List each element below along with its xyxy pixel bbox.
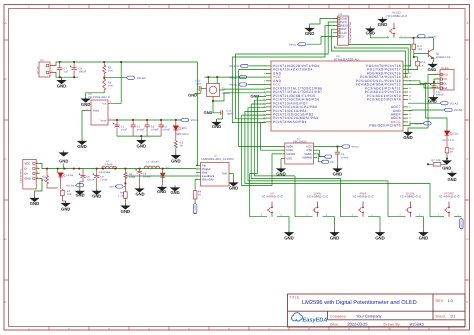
svg-text:11: 11 [427, 327, 430, 331]
svg-text:Vcont: Vcont [428, 35, 436, 38]
svg-text:4: 4 [197, 174, 198, 177]
svg-text:TC-F066D-C-C: TC-F066D-C-C [352, 195, 373, 199]
svg-text:5: 5 [197, 177, 198, 180]
svg-text:2 SCK: 2 SCK [339, 21, 347, 24]
svg-text:SDA: SDA [442, 86, 448, 90]
svg-text:Vmcu: Vmcu [229, 75, 237, 79]
svg-text:Your Company: Your Company [356, 314, 382, 319]
svg-text:GND: GND [93, 110, 99, 113]
svg-text:EasyEDA: EasyEDA [303, 318, 328, 324]
wire [280, 159, 282, 167]
svg-text:Sheet:: Sheet: [436, 315, 447, 319]
svg-text:6 5V: 6 5V [339, 35, 345, 38]
svg-text:Drawn By:: Drawn By: [384, 323, 401, 327]
resistor R13 [414, 57, 418, 60]
net flag An0 [115, 185, 123, 188]
svg-text:1N5258R: 1N5258R [99, 171, 111, 174]
net flag OFF D vertical [194, 200, 196, 203]
svg-text:GND: GND [284, 236, 294, 241]
wire [341, 216, 359, 218]
svg-text:100nF: 100nF [341, 156, 349, 159]
svg-text:LED2: LED2 [452, 132, 459, 135]
net flag Vmcu [342, 145, 350, 148]
wire [430, 216, 444, 218]
svg-text:GND: GND [375, 236, 385, 241]
svg-text:100nF: 100nF [162, 129, 170, 132]
svg-text:78L05M3-AB3-R: 78L05M3-AB3-R [88, 96, 110, 99]
capacitor C6 [79, 168, 83, 170]
svg-text:GND: GND [305, 31, 315, 36]
ground [93, 189, 101, 195]
wire [295, 216, 313, 218]
capacitor C9 [96, 169, 98, 176]
net flag VD A0 [444, 108, 452, 111]
ground [336, 154, 338, 167]
ground [330, 230, 338, 236]
svg-text:GND: GND [330, 236, 340, 241]
svg-text:GND: GND [250, 94, 259, 99]
LED2 SCL LED [426, 84, 448, 132]
wire UP column [249, 173, 251, 216]
wire STORE column [429, 183, 431, 216]
svg-text:GND: GND [171, 158, 181, 163]
svg-text:GND: GND [442, 73, 448, 77]
capacitor C7 [59, 62, 61, 68]
capacitor C3 [146, 120, 148, 125]
svg-text:A: A [466, 21, 468, 25]
wire PWR column [340, 178, 342, 216]
svg-text:LM2596 with Digital Potentiome: LM2596 with Digital Potentiometer and OL… [302, 299, 417, 306]
ground [285, 230, 293, 236]
wire programmer bus [236, 22, 335, 119]
wire VCC to flag [317, 146, 341, 148]
svg-text:ON/+OFF: ON/+OFF [202, 178, 214, 182]
svg-text:Vmcu: Vmcu [229, 83, 237, 87]
svg-text:TITLE:: TITLE: [290, 295, 301, 299]
svg-text:4 RST: 4 RST [339, 28, 347, 31]
wire VH [242, 154, 281, 186]
svg-text:GND: GND [229, 186, 239, 191]
svg-text:VD A0: VD A0 [454, 109, 463, 112]
svg-text:3: 3 [197, 170, 198, 173]
resistor R6 [103, 78, 106, 91]
svg-text:B1Sisko: B1Sisko [410, 322, 424, 327]
capacitor C11 [160, 120, 162, 125]
wire [250, 216, 268, 218]
node VD A2 wire [103, 77, 105, 79]
wire [82, 111, 86, 139]
svg-text:OFF D: OFF D [193, 206, 196, 214]
svg-text:GND: GND [135, 191, 144, 196]
wire [124, 169, 126, 172]
wire Vout rail [113, 119, 181, 121]
svg-text:3 MISO: 3 MISO [339, 25, 348, 28]
ground [78, 139, 86, 145]
wire [307, 36, 335, 44]
svg-text:150uH: 150uH [151, 160, 159, 163]
svg-text:PC0/ADC0/PCINT8: PC0/ADC0/PCINT8 [367, 98, 401, 102]
svg-text:E: E [4, 300, 6, 304]
svg-text:VCONT: VCONT [459, 221, 462, 231]
net flag Vmcu [181, 118, 189, 121]
svg-text:18pF: 18pF [196, 83, 203, 86]
resistor R12 [413, 38, 415, 43]
ground [162, 177, 164, 185]
transistor Q1 [413, 51, 415, 57]
capacitor C8 [73, 62, 75, 68]
svg-text:U5: U5 [40, 59, 44, 62]
svg-text:REV:: REV: [436, 299, 445, 303]
svg-text:E: E [466, 300, 468, 304]
ground [140, 136, 142, 138]
svg-text:GND: GND [428, 67, 437, 72]
ground [443, 159, 451, 165]
svg-text:5 3.3V: 5 3.3V [339, 32, 347, 35]
wire [195, 91, 201, 94]
wire [233, 174, 235, 181]
wire [213, 101, 221, 113]
wire [433, 38, 435, 50]
wire [86, 91, 105, 97]
svg-text:Date:: Date: [330, 323, 339, 327]
svg-text:1K: 1K [198, 194, 202, 197]
svg-text:U6: U6 [339, 13, 343, 16]
svg-text:D+: D+ [25, 172, 29, 176]
svg-text:Vmcu: Vmcu [289, 44, 297, 47]
svg-text:PWR MCU: PWR MCU [175, 133, 189, 136]
capacitor C12 [431, 86, 436, 88]
svg-text:PCINT4/MISO/PB4: PCINT4/MISO/PB4 [273, 120, 307, 124]
svg-text:XH-2A: XH-2A [37, 66, 40, 74]
svg-text:100K: 100K [129, 176, 136, 179]
svg-text:100uF: 100uF [78, 71, 86, 74]
svg-text:220uF: 220uF [87, 179, 95, 182]
svg-text:LM2596S-ADJ_C1X000: LM2596S-ADJ_C1X000 [202, 158, 235, 161]
svg-text:GND: GND [57, 83, 67, 88]
svg-text:OFF D: OFF D [229, 64, 238, 68]
svg-text:An0: An0 [109, 186, 114, 189]
svg-text:10K: 10K [67, 193, 72, 196]
svg-text:B: B [466, 77, 468, 81]
svg-text:UP: UP [319, 156, 323, 159]
net flag Vcont [423, 122, 431, 125]
wire [446, 154, 448, 158]
svg-text:16MHz: 16MHz [222, 92, 231, 95]
ground [82, 97, 90, 103]
svg-text:LED1: LED1 [180, 127, 187, 130]
wire [248, 76, 267, 78]
LED1 PWR MCU [175, 120, 177, 126]
resistor R5 [103, 62, 105, 64]
resistor R1 [46, 169, 48, 175]
svg-text:GND: GND [419, 236, 429, 241]
capacitor C8b [139, 169, 141, 172]
wire [388, 216, 406, 218]
svg-text:TC-F066D-C-C: TC-F066D-C-C [307, 195, 328, 199]
svg-text:GND: GND [121, 209, 131, 214]
svg-text:GND: GND [442, 165, 451, 170]
wire MCU right bus [335, 46, 409, 73]
svg-text:TC-F066D-C-C: TC-F066D-C-C [261, 195, 282, 199]
ground top [60, 151, 68, 157]
wire STORE net [241, 185, 243, 187]
net flag UP [317, 150, 324, 156]
connector U5 [39, 62, 50, 77]
svg-text:Company:: Company: [330, 315, 347, 319]
net flag VD A2 [440, 102, 448, 105]
wire bus MCU to buttons [250, 97, 266, 174]
ground [419, 230, 427, 236]
resistor R4 [124, 171, 127, 179]
svg-text:GND: GND [403, 135, 413, 140]
svg-text:10: 10 [387, 5, 391, 9]
svg-text:2022-03-25: 2022-03-25 [348, 322, 368, 327]
svg-text:D1: D1 [166, 166, 170, 169]
wire [408, 67, 418, 69]
svg-text:USB-MICRO: USB-MICRO [20, 169, 23, 183]
svg-text:VD A2: VD A2 [450, 102, 459, 105]
svg-text:TC-F066D-C-C: TC-F066D-C-C [386, 14, 407, 18]
svg-text:Programmer Port: Programmer Port [349, 22, 352, 43]
ground [404, 130, 412, 136]
capacitor C5 [336, 147, 338, 153]
wire [370, 37, 389, 39]
svg-text:100nF: 100nF [151, 129, 159, 132]
svg-text:GND: GND [447, 177, 456, 182]
svg-text:VH/RH: VH/RH [286, 152, 295, 156]
svg-text:TC-F066D-C-C: TC-F066D-C-C [438, 195, 459, 199]
resistor R9 [194, 180, 197, 190]
svg-text:2N3904-A2: 2N3904-A2 [436, 56, 451, 59]
svg-text:VD A2: VD A2 [137, 76, 146, 80]
svg-text:1 GND: 1 GND [339, 17, 347, 20]
wire [408, 123, 423, 125]
ground [277, 167, 285, 173]
wire [124, 180, 126, 191]
capacitor C14 [221, 110, 223, 115]
svg-text:GND: GND [170, 190, 179, 195]
ground [175, 149, 177, 153]
svg-text:GND: GND [81, 102, 91, 107]
ground [171, 186, 179, 192]
svg-text:D-: D- [25, 167, 28, 171]
svg-text:1.2K: 1.2K [118, 195, 124, 198]
title block [288, 294, 466, 327]
ground [61, 197, 63, 201]
resistor R3 [175, 130, 177, 140]
ground [433, 57, 435, 62]
svg-text:PB5/SCK/PCINT5: PB5/SCK/PCINT5 [369, 124, 401, 128]
ground [124, 200, 126, 204]
wire SCL [408, 81, 437, 84]
ground [229, 181, 237, 187]
wire [40, 164, 196, 169]
wire SDA [408, 85, 437, 89]
resistor R2 [60, 177, 62, 189]
svg-text:B: B [4, 77, 6, 81]
wire [125, 175, 196, 177]
svg-text:TC-F066D-C-C: TC-F066D-C-C [400, 195, 421, 199]
svg-text:11: 11 [427, 5, 430, 9]
svg-text:GND: GND [77, 144, 87, 149]
svg-text:Vin: Vin [102, 102, 107, 105]
svg-text:220uF: 220uF [100, 179, 108, 182]
ground [376, 230, 384, 236]
capacitor C1 [116, 120, 118, 125]
svg-text:1.0: 1.0 [448, 299, 453, 303]
wire [35, 179, 43, 197]
svg-text:100uF: 100uF [436, 94, 444, 97]
svg-text:GND: GND [188, 93, 197, 98]
wire [249, 65, 266, 67]
svg-text:GND: GND [61, 206, 70, 211]
svg-text:LED3: LED3 [67, 174, 74, 177]
svg-text:SCL: SCL [442, 82, 448, 86]
wire [201, 88, 207, 90]
wire [408, 102, 440, 104]
ground [30, 196, 38, 202]
wire [113, 62, 121, 103]
wire to X9C104 [239, 70, 281, 147]
ground [433, 88, 435, 95]
net flag DN [317, 154, 321, 162]
svg-text:Vmcu: Vmcu [352, 146, 360, 149]
net flag VCONT [460, 218, 464, 229]
svg-text:GND: GND [92, 194, 101, 199]
LED D3 power [57, 169, 59, 173]
diode D1 [162, 169, 164, 174]
svg-text:GND: GND [157, 189, 166, 194]
wire [408, 109, 444, 112]
svg-text:1K: 1K [180, 145, 184, 148]
svg-text:A: A [4, 21, 6, 25]
svg-text:GND: GND [30, 201, 40, 206]
svg-text:1/1: 1/1 [450, 315, 455, 319]
svg-text:100nF: 100nF [137, 129, 145, 132]
svg-text:DN: DN [330, 161, 334, 164]
ground [310, 18, 338, 26]
wire [248, 84, 267, 86]
net flag Vcont [417, 35, 425, 38]
connector USB J1 [23, 159, 36, 189]
ground [222, 115, 224, 119]
ground [135, 187, 143, 193]
svg-text:Vcont: Vcont [414, 123, 422, 126]
capacitor C13 [199, 86, 201, 91]
svg-text:10K: 10K [108, 85, 113, 88]
svg-text:10: 10 [387, 327, 391, 331]
svg-text:L1: L1 [147, 160, 151, 163]
svg-text:GND: GND [25, 177, 31, 181]
svg-text:VD A0: VD A0 [66, 185, 74, 188]
crystal X1 [207, 84, 220, 97]
wire [434, 79, 437, 86]
svg-text:GND: GND [204, 110, 213, 115]
svg-text:GND: GND [212, 124, 221, 129]
wire DISPL column [387, 181, 389, 217]
svg-text:VSS: VSS [286, 157, 292, 161]
ground [61, 77, 63, 78]
svg-text:1K0: 1K0 [417, 48, 422, 51]
net flag VD A2 [126, 76, 134, 79]
svg-text:1uF: 1uF [63, 71, 68, 74]
svg-text:X1: X1 [222, 87, 226, 90]
net flag VD A0 [76, 184, 84, 187]
ground [366, 27, 374, 33]
svg-text:VCC: VCC [25, 162, 31, 166]
capacitor C2 [132, 120, 134, 125]
resistor R8 [124, 190, 126, 199]
svg-text:GND: GND [59, 159, 68, 164]
wire [408, 75, 437, 131]
svg-text:GND: GND [75, 192, 84, 197]
svg-text:VCC: VCC [442, 77, 448, 81]
svg-text:GND: GND [428, 98, 437, 103]
ground [378, 17, 386, 23]
wire DWN column [294, 176, 296, 217]
svg-text:10uF: 10uF [121, 129, 128, 132]
svg-text:1K: 1K [420, 64, 424, 67]
svg-text:R7 10K: R7 10K [432, 159, 441, 162]
ground [79, 184, 81, 189]
svg-text:2.2uH: 2.2uH [105, 163, 112, 166]
svg-text:SCL LED: SCL LED [443, 139, 454, 142]
svg-text:GND: GND [333, 172, 343, 177]
svg-text:GND: GND [137, 143, 147, 148]
wire [117, 135, 161, 137]
svg-text:TAB: TAB [222, 173, 227, 176]
svg-text:GND: GND [378, 22, 388, 27]
wire [196, 62, 198, 166]
svg-text:2: 2 [197, 167, 198, 170]
svg-text:VW/RW: VW/RW [302, 156, 312, 160]
resistor R11 [446, 135, 448, 146]
wire [54, 62, 198, 66]
svg-text:1K: 1K [450, 151, 454, 154]
ground [448, 171, 456, 177]
svg-text:10K: 10K [41, 179, 46, 182]
EasyEDA logo [292, 313, 328, 324]
svg-text:10K: 10K [108, 70, 113, 73]
svg-text:Vout: Vout [101, 119, 107, 122]
